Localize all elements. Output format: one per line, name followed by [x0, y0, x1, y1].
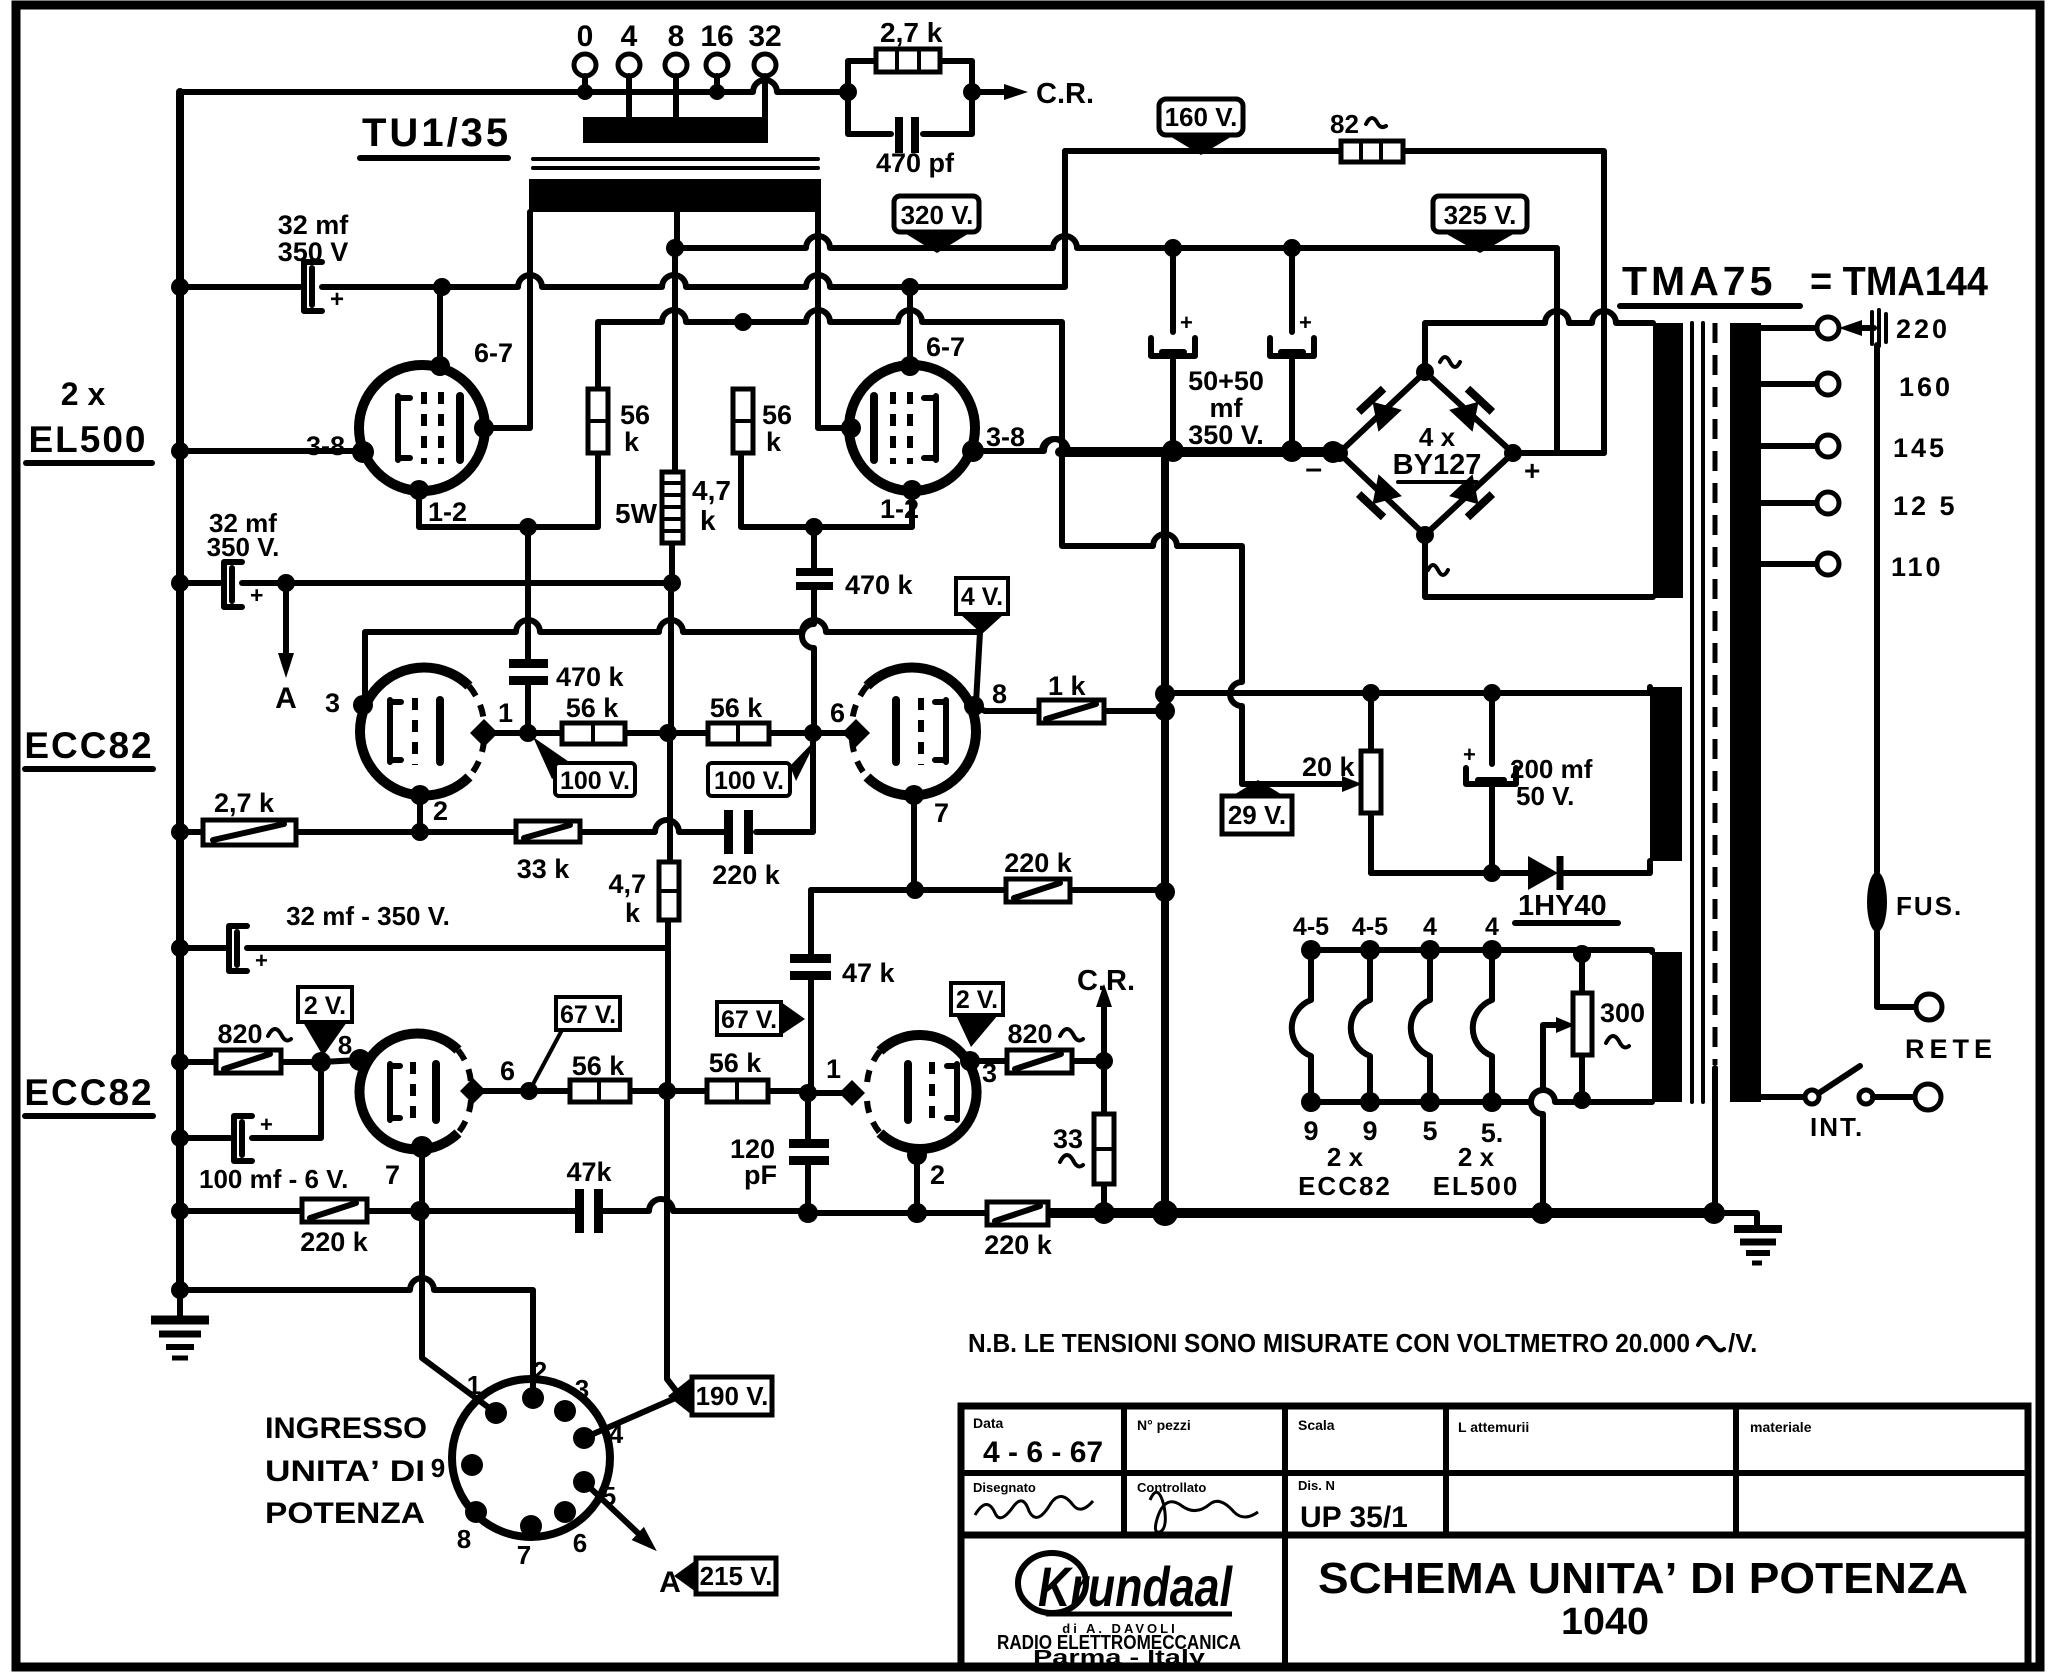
svg-text:8: 8 [668, 20, 685, 53]
svg-text:470 k: 470 k [845, 570, 914, 600]
flag 160V [1159, 99, 1243, 155]
svg-text:32: 32 [748, 20, 781, 53]
svg-text:110: 110 [1891, 552, 1944, 582]
anode wire left EL500 [484, 212, 530, 428]
pin 7 (upper-right ECC82) [904, 785, 924, 805]
wire rail-C [598, 310, 1346, 784]
resistor 82 ohm [1330, 109, 1403, 162]
svg-text:29 V.: 29 V. [1228, 800, 1286, 830]
svg-text:INGRESSO: INGRESSO [265, 1412, 427, 1445]
svg-text:190 V.: 190 V. [696, 1381, 769, 1411]
transformer TU1/35 secondary bar [529, 179, 821, 212]
pin 1-2 (right EL500) [902, 480, 922, 500]
svg-text:160: 160 [1899, 372, 1953, 402]
svg-text:N° pezzi: N° pezzi [1137, 1417, 1191, 1433]
svg-text:FUS.: FUS. [1896, 891, 1963, 921]
capacitor 32mf-350V (third) [229, 901, 450, 973]
capacitor 470k (right of EL500s) [796, 527, 914, 733]
svg-text:16: 16 [700, 20, 733, 53]
svg-text:2,7 k: 2,7 k [880, 17, 943, 48]
svg-text:220 k: 220 k [1004, 848, 1073, 878]
svg-text:56: 56 [762, 400, 792, 430]
resistor 220k (lower left) [300, 1199, 369, 1257]
heater bottom rail [1311, 1090, 1652, 1102]
svg-text:4-5: 4-5 [1293, 913, 1329, 941]
capacitor 32mf 350V (second) [207, 508, 280, 608]
svg-text:A: A [659, 1566, 681, 1599]
svg-text:4-5: 4-5 [1352, 913, 1388, 941]
transformer core lamination lines [533, 159, 818, 168]
pin 3-8 (left EL500) [180, 448, 364, 454]
capacitor 120pF [730, 1093, 829, 1213]
svg-text:47 k: 47 k [842, 958, 896, 988]
diode 1HY40 [1515, 856, 1618, 923]
resistor 4,7k (second) [608, 862, 679, 928]
wire 890 with 220k to bus [811, 887, 1165, 893]
primary tap 145 [1761, 433, 1947, 463]
left bus wire [176, 92, 184, 1290]
svg-text:Krundaal: Krundaal [1038, 1555, 1233, 1618]
resistor 56k #5 [570, 1051, 630, 1102]
speaker tap 32 [748, 20, 781, 119]
label ECC82 (low) [24, 1072, 153, 1116]
svg-text:1: 1 [467, 1370, 481, 1400]
primary tap 125 [1761, 491, 1958, 521]
svg-text:56 k: 56 k [710, 693, 764, 723]
pin 3 (lower-right ECC82) [960, 1051, 980, 1071]
capacitor 32mf 350V (first) [278, 210, 350, 313]
primary tap 220 [1761, 310, 1950, 346]
svg-text:7: 7 [934, 798, 949, 828]
svg-text:56: 56 [620, 400, 650, 430]
svg-text:k: k [700, 505, 716, 536]
TMA75 heater winding bar [1652, 952, 1682, 1102]
svg-text:320 V.: 320 V. [901, 200, 974, 230]
flag 100V right [708, 737, 818, 796]
svg-text:1: 1 [498, 698, 513, 728]
svg-text:67 V.: 67 V. [560, 1001, 616, 1029]
flag 100V left [533, 737, 635, 796]
tube ECC82 upper-left [360, 668, 469, 796]
svg-text:56 k: 56 k [566, 693, 620, 723]
capacitor 470pf plates [876, 117, 955, 178]
thick minus rail under caps [1060, 447, 1333, 457]
svg-text:EL500: EL500 [28, 419, 147, 460]
wire bus ground to connector pin2 [180, 1278, 533, 1398]
capacitor 470k (center) [509, 527, 625, 733]
resistor 56k #2 [733, 389, 792, 457]
svg-text:Dis. N: Dis. N [1298, 1478, 1335, 1493]
svg-text:2 x: 2 x [1327, 1142, 1364, 1172]
svg-text:materiale: materiale [1750, 1419, 1812, 1435]
svg-text:1: 1 [826, 1054, 841, 1084]
svg-text:k: k [625, 898, 641, 928]
svg-text:RETE: RETE [1905, 1034, 1997, 1064]
pin 2 (lower-right ECC82) [907, 1145, 927, 1165]
svg-text:Scala: Scala [1298, 1417, 1335, 1433]
wire rail-B with hops over anode verticals [180, 151, 1065, 287]
svg-text:2 V.: 2 V. [956, 986, 998, 1014]
resistor 56k #1 [588, 389, 650, 457]
svg-text:4 - 6 - 67: 4 - 6 - 67 [983, 1436, 1103, 1469]
svg-text:+: + [260, 1112, 273, 1137]
svg-text:5W: 5W [615, 498, 658, 529]
flag 4V [956, 578, 1008, 634]
flag 190V [668, 1377, 772, 1415]
flag 29V [1222, 780, 1292, 834]
TMA75 primary bar [1730, 323, 1761, 1102]
svg-text:1HY40: 1HY40 [1518, 890, 1607, 922]
resistor 1k [974, 671, 1165, 723]
pin 1-2 (left EL500) [409, 480, 429, 500]
resistor 33k [516, 821, 580, 884]
ground bus vertical (thick) [1161, 452, 1169, 1213]
svg-text:Controllato: Controllato [1137, 1480, 1206, 1495]
heater element 3 [1411, 950, 1430, 1102]
label TU1/35 [360, 111, 511, 158]
svg-text:UNITAʼ DI: UNITAʼ DI [265, 1455, 425, 1488]
svg-text:2,7 k: 2,7 k [214, 788, 275, 818]
svg-text:820: 820 [217, 1019, 262, 1049]
svg-text:+: + [330, 286, 344, 313]
ground rail (thick) [1048, 1208, 1714, 1218]
connector circle [452, 1379, 610, 1537]
svg-text:470 pf: 470 pf [876, 148, 955, 178]
svg-text:TMA75: TMA75 [1622, 258, 1776, 304]
svg-text:ECC82: ECC82 [24, 725, 153, 766]
svg-text:Disegnato: Disegnato [973, 1480, 1036, 1495]
svg-text:= TMA144: = TMA144 [1810, 258, 1988, 304]
svg-text:2: 2 [433, 796, 448, 826]
svg-text:220: 220 [1896, 314, 1950, 344]
capacitor 100mf-6V [171, 1062, 348, 1194]
capacitor 220k (coupling) [712, 810, 781, 890]
resistor 220k (lower right) [984, 1202, 1053, 1260]
svg-text:220 k: 220 k [984, 1230, 1053, 1260]
arrow pin5 to A [584, 1482, 640, 1535]
svg-text:9: 9 [1362, 1116, 1377, 1146]
flag 2V (right) [951, 983, 1003, 1047]
pin 6 (lower-left ECC82) [472, 1088, 529, 1094]
ground symbol right [1714, 1213, 1782, 1263]
wire 832 from bus [180, 733, 813, 832]
svg-text:32 mf: 32 mf [278, 210, 350, 240]
wire top bus to speaker taps [180, 80, 848, 92]
svg-text:EL500: EL500 [1433, 1171, 1520, 1201]
capacitor 50+50mf left unit [1151, 248, 1195, 450]
wire y583 [180, 580, 672, 586]
svg-text:5: 5 [1422, 1116, 1437, 1146]
diode upper-left [1359, 389, 1403, 433]
svg-text:1040: 1040 [1561, 1601, 1649, 1643]
pin 6-7 (right EL500) [907, 287, 913, 366]
ground rail left section with 47k cap [180, 1199, 1104, 1213]
heater top rail [1311, 950, 1652, 952]
svg-text:4: 4 [1423, 913, 1437, 941]
pin 3 (upper-left ECC82) [353, 695, 373, 715]
potentiometer 20k [1302, 693, 1381, 873]
resistor 33 ohm [1053, 1061, 1114, 1213]
pin 3-8 (right EL500) [973, 439, 1066, 451]
svg-text:ECC82: ECC82 [1298, 1171, 1392, 1201]
signature 2 [1150, 1492, 1258, 1532]
svg-text:0: 0 [577, 20, 594, 53]
svg-text:Parma - Italy: Parma - Italy [1033, 1647, 1206, 1669]
resistor 820 (right) [970, 1019, 1104, 1073]
resistor 56k #4 [708, 693, 769, 744]
svg-text:220 k: 220 k [712, 860, 781, 890]
svg-text:8: 8 [338, 1030, 352, 1060]
svg-text:6-7: 6-7 [926, 332, 965, 362]
svg-text:100 V.: 100 V. [560, 767, 630, 795]
pin 1 (lower-right ECC82) [839, 1080, 865, 1106]
wire bridge bottom to HV winding bottom [1425, 535, 1653, 597]
svg-text:4,7: 4,7 [692, 475, 731, 506]
tube ECC82 lower-left [359, 1034, 458, 1150]
svg-text:2 x: 2 x [61, 376, 106, 412]
bridge rectifier 4x BY127 [1305, 357, 1540, 575]
diode lower-right [1448, 474, 1492, 518]
svg-text:N.B. LE TENSIONI SONO MISURATE: N.B. LE TENSIONI SONO MISURATE CON VOLTM… [968, 1328, 1690, 1358]
svg-text:POTENZA: POTENZA [265, 1497, 425, 1530]
svg-text:+: + [1524, 455, 1540, 486]
switch INT [1761, 1066, 1941, 1142]
svg-text:7: 7 [385, 1160, 400, 1190]
svg-text:1-2: 1-2 [428, 497, 467, 527]
pin 6-7 (left EL500) [437, 287, 443, 366]
diode lower-left [1359, 474, 1403, 518]
svg-text:+: + [1299, 310, 1312, 335]
svg-text:L attemurii: L attemurii [1458, 1419, 1529, 1435]
svg-text:350 V.: 350 V. [1188, 420, 1264, 450]
capacitor 50+50mf right unit [1270, 248, 1314, 450]
tube EL500 left [359, 365, 485, 491]
svg-text:/V.: /V. [1728, 1328, 1757, 1358]
svg-text:2 V.: 2 V. [304, 992, 346, 1020]
wire 160V line with 82ohm [1065, 151, 1604, 453]
svg-text:+: + [1180, 310, 1193, 335]
capacitor 200mf 50V [1463, 693, 1593, 873]
svg-text:4: 4 [621, 20, 638, 53]
svg-text:C.R.: C.R. [1077, 965, 1135, 997]
svg-text:3: 3 [325, 688, 340, 718]
svg-text:470 k: 470 k [556, 662, 625, 692]
diode upper-right [1448, 389, 1492, 433]
pin 7 (lower-left ECC82) [411, 1136, 433, 1158]
resistor 56k #6 [707, 1048, 768, 1102]
svg-text:SCHEMA UNITAʼ DI POTENZA: SCHEMA UNITAʼ DI POTENZA [1318, 1554, 1968, 1603]
resistor 2,7k with 470pf parallel [839, 17, 981, 134]
svg-text:6: 6 [500, 1056, 515, 1086]
svg-text:+: + [1463, 742, 1476, 767]
label ECC82 (mid) [24, 725, 153, 769]
svg-text:12 5: 12 5 [1893, 491, 1958, 521]
svg-text:8: 8 [992, 679, 1007, 709]
svg-text:6-7: 6-7 [474, 338, 513, 368]
wire pin7 down to connector pin1 [422, 1147, 496, 1413]
svg-text:300: 300 [1600, 998, 1645, 1028]
svg-text:2: 2 [533, 1356, 547, 1386]
wire rail-628 [365, 620, 980, 705]
resistor 2,7k (left) [203, 788, 296, 845]
TMA75 HV winding bar [1653, 323, 1683, 598]
label 2x EL500 [26, 376, 152, 463]
wire 873 and diode 1HY40 [1371, 861, 1650, 873]
fuse FUS [1867, 345, 1963, 1020]
svg-text:50 V.: 50 V. [1516, 781, 1574, 811]
pin 1 (upper-left ECC82) [484, 730, 528, 736]
heater element 2 [1351, 950, 1370, 1102]
svg-text:3-8: 3-8 [306, 431, 345, 461]
TMA75 core lines [1692, 323, 1703, 1102]
pin 8 (lower-left ECC82) [349, 1049, 371, 1071]
svg-text:BY127: BY127 [1393, 449, 1482, 481]
svg-text:145: 145 [1893, 433, 1947, 463]
svg-text:56 k: 56 k [572, 1051, 626, 1081]
svg-text:+: + [255, 948, 268, 973]
primary tap 110 [1761, 552, 1944, 582]
svg-text:350 V.: 350 V. [207, 532, 280, 562]
svg-text:2: 2 [930, 1160, 945, 1190]
speaker tap 8 [665, 20, 687, 119]
svg-text:k: k [766, 427, 782, 457]
cathode wire right EL500 to 56k#2 [741, 455, 912, 527]
C.R. output arrow [972, 78, 1094, 110]
C.R. arrow (lower) [1077, 965, 1135, 1070]
svg-text:215 V.: 215 V. [700, 1561, 773, 1591]
ground (left bus) [151, 1290, 209, 1358]
wire 694 to bias winding [1165, 687, 1650, 693]
resistor 56k #3 [562, 693, 625, 744]
flag 67V (left, tail) [532, 997, 620, 1086]
svg-text:4,7: 4,7 [608, 869, 646, 899]
wire pin6 to pin1 with 56k pair (lower) [529, 1091, 852, 1093]
svg-text:mf: mf [1210, 393, 1244, 423]
svg-text:200 mf: 200 mf [1510, 754, 1593, 784]
svg-text:56 k: 56 k [709, 1048, 763, 1078]
svg-text:67 V.: 67 V. [721, 1006, 777, 1034]
wire pin1 to pin6 with 56k pair [528, 730, 856, 736]
svg-text:k: k [624, 427, 640, 457]
heater element 4 [1473, 950, 1492, 1102]
pin 6 (upper-right ECC82) [842, 719, 870, 747]
svg-text:TU1/35: TU1/35 [362, 111, 511, 155]
svg-text:20 k: 20 k [1302, 752, 1356, 782]
connector pins [485, 1402, 507, 1424]
svg-text:32 mf - 350 V.: 32 mf - 350 V. [286, 901, 450, 931]
svg-text:ECC82: ECC82 [24, 1072, 153, 1113]
svg-text:82: 82 [1330, 109, 1359, 139]
svg-text:1 k: 1 k [1048, 671, 1087, 701]
svg-text:4 V.: 4 V. [961, 583, 1003, 611]
flag 2V (left) [298, 987, 352, 1056]
flag 215V [674, 1558, 776, 1594]
tube EL500 right [849, 365, 975, 491]
speaker tap 16 [700, 20, 733, 100]
svg-text:3-8: 3-8 [986, 422, 1025, 452]
svg-text:Data: Data [973, 1415, 1004, 1431]
svg-text:9: 9 [1303, 1116, 1318, 1146]
resistor 4,7k 5W wirewound [615, 472, 731, 543]
center tap vertical with 4,7k 5W [667, 212, 680, 1396]
wire pin4 to 190V flag [584, 1396, 680, 1438]
capacitor 47k (upper) [790, 890, 896, 1093]
svg-text:6: 6 [830, 698, 845, 728]
pin 2 (upper-left ECC82) [410, 785, 430, 805]
svg-text:6: 6 [573, 1528, 587, 1558]
svg-text:4: 4 [1485, 913, 1499, 941]
tube ECC82 lower-right [880, 1035, 977, 1149]
svg-text:2 x: 2 x [1458, 1142, 1495, 1172]
svg-text:50+50: 50+50 [1188, 366, 1264, 396]
svg-text:UP 35/1: UP 35/1 [1300, 1501, 1408, 1534]
flag 67V (right) [717, 1002, 805, 1035]
svg-text:C.R.: C.R. [1036, 78, 1094, 110]
node A arrow [275, 583, 297, 715]
svg-text:3: 3 [575, 1374, 589, 1404]
signature 1 [975, 1496, 1093, 1517]
capacitor 47k (in ground rail) [566, 1157, 612, 1233]
svg-text:47k: 47k [566, 1157, 612, 1187]
svg-text:220 k: 220 k [300, 1227, 369, 1257]
speaker tap 0 [574, 20, 596, 100]
svg-text:100 mf - 6 V.: 100 mf - 6 V. [199, 1164, 348, 1194]
wire 951 from bus with 32mf [180, 945, 668, 951]
wiper 300 to ground [1531, 1025, 1556, 1213]
TMA75 bias winding bar [1650, 687, 1682, 861]
svg-text:A: A [275, 682, 297, 715]
pin 8 (upper-right ECC82) [964, 696, 984, 716]
svg-text:8: 8 [457, 1524, 471, 1554]
svg-text:pF: pF [744, 1160, 777, 1190]
svg-text:820: 820 [1007, 1019, 1052, 1049]
svg-text:4 x: 4 x [1419, 422, 1456, 452]
svg-text:7: 7 [517, 1540, 531, 1570]
wire bridge plus node [1513, 450, 1604, 456]
svg-text:33: 33 [1053, 1124, 1083, 1154]
resistor 220k (upper right) [1004, 848, 1073, 902]
svg-text:9: 9 [431, 1453, 445, 1483]
arrow into 20k wiper [1342, 776, 1362, 792]
svg-text:350 V: 350 V [278, 237, 349, 267]
cathode wire left EL500 to 56k#1 [419, 455, 598, 527]
TMA75 transformer label [1620, 258, 1988, 306]
potentiometer 300 ohm [1556, 945, 1645, 1109]
primary tap 160 [1761, 372, 1953, 402]
Krundaal logo [997, 1553, 1241, 1669]
core shield ground wire [1712, 1068, 1718, 1213]
speaker tap 4 [618, 20, 640, 119]
anode wire right EL500 [818, 212, 851, 428]
svg-text:325 V.: 325 V. [1444, 200, 1517, 230]
svg-text:160 V.: 160 V. [1165, 102, 1238, 132]
svg-text:+: + [250, 582, 263, 608]
heater element 1 [1292, 950, 1311, 1102]
svg-text:INT.: INT. [1810, 1112, 1864, 1142]
wire rail-248 [675, 236, 1557, 453]
wire HV winding top to bridge [1425, 311, 1653, 372]
tube ECC82 upper-right [867, 668, 976, 796]
svg-text:33 k: 33 k [517, 854, 571, 884]
svg-text:100 V.: 100 V. [714, 767, 784, 795]
transformer TU1/35 primary bar [583, 117, 768, 143]
flag 320V [894, 196, 979, 253]
resistor 820 (left) [171, 1019, 360, 1073]
flag 325V [1433, 196, 1527, 253]
